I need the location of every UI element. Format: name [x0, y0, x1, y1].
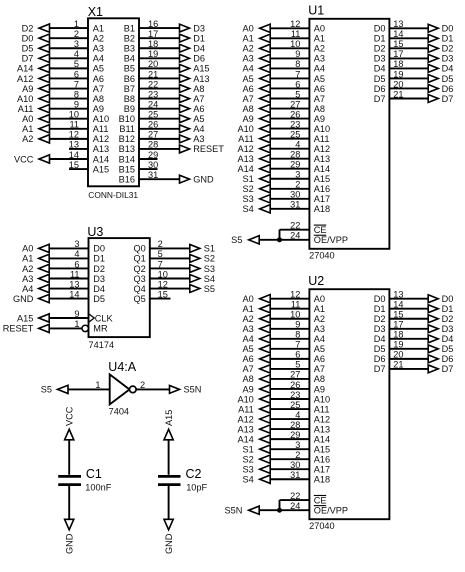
- svg-text:D7: D7: [374, 94, 386, 104]
- svg-text:23: 23: [148, 89, 158, 99]
- svg-text:A9: A9: [314, 384, 325, 394]
- svg-text:A2: A2: [93, 33, 104, 43]
- terminal A3 (U3 pin 11): [22, 274, 49, 284]
- svg-text:14: 14: [393, 300, 403, 310]
- wire U1 pin 20: [389, 87, 429, 89]
- svg-text:B4: B4: [124, 54, 135, 64]
- terminal S5 (U3 pin 12): [190, 284, 215, 294]
- terminal S1 (U3 pin 2): [190, 244, 215, 254]
- svg-text:A14: A14: [314, 434, 330, 444]
- svg-text:21: 21: [393, 89, 403, 99]
- wire U1 pin 24 (OE/VPP): [259, 239, 309, 241]
- inversion bubble (U3 MR): [82, 325, 88, 331]
- svg-text:A2: A2: [314, 314, 325, 324]
- svg-text:D3: D3: [193, 23, 205, 33]
- wire X1 pin 25: [139, 118, 180, 120]
- svg-text:A4: A4: [193, 124, 204, 134]
- svg-text:CE: CE: [314, 225, 327, 235]
- IC U2 27040 body: [309, 289, 389, 519]
- wire X1 pin 29: [139, 158, 158, 160]
- wire U2 pin 25: [270, 408, 309, 410]
- svg-text:A2: A2: [314, 44, 325, 54]
- wire X1 pin 21: [139, 77, 180, 79]
- svg-text:A0: A0: [22, 244, 33, 254]
- terminal D5 (U2 pin 19): [428, 344, 453, 354]
- svg-text:D1: D1: [442, 34, 454, 44]
- svg-text:A13: A13: [314, 154, 330, 164]
- wire U3 pin 5: [150, 257, 190, 259]
- svg-text:A12: A12: [237, 414, 253, 424]
- svg-text:U3: U3: [87, 225, 103, 239]
- svg-text:A5: A5: [314, 344, 325, 354]
- wire U1 pin 27: [270, 108, 309, 110]
- svg-text:12: 12: [290, 290, 300, 300]
- svg-text:17: 17: [148, 29, 158, 39]
- svg-text:8: 8: [295, 330, 300, 340]
- wire U2 pin 14: [389, 308, 429, 310]
- svg-text:GND: GND: [13, 294, 34, 304]
- wire U1 pin 26: [270, 118, 309, 120]
- wire U3 pin 13: [49, 288, 88, 290]
- svg-text:8: 8: [295, 59, 300, 69]
- svg-text:D4: D4: [193, 44, 205, 54]
- wire U2 pin 17: [389, 328, 429, 330]
- terminal D6 (U1 pin 20): [428, 84, 453, 94]
- svg-text:21: 21: [393, 360, 403, 370]
- svg-text:RESET: RESET: [3, 324, 34, 334]
- svg-text:A6: A6: [243, 354, 254, 364]
- terminal D7 (U2 pin 21): [428, 364, 453, 374]
- svg-text:D6: D6: [374, 84, 386, 94]
- svg-text:S1: S1: [243, 174, 254, 184]
- svg-text:D7: D7: [374, 364, 386, 374]
- svg-text:S4: S4: [243, 204, 254, 214]
- svg-text:D7: D7: [442, 364, 454, 374]
- svg-text:A1: A1: [22, 254, 33, 264]
- wire U1 pin 17: [389, 57, 429, 59]
- svg-text:A2: A2: [243, 314, 254, 324]
- wire C1 bottom plate to GND: [68, 486, 70, 519]
- svg-text:MR: MR: [93, 324, 108, 334]
- svg-text:2: 2: [74, 29, 79, 39]
- svg-text:S5N: S5N: [225, 506, 243, 516]
- wire X1 pin 28: [139, 148, 180, 150]
- svg-text:1: 1: [95, 380, 100, 390]
- junction dot node S5: [277, 237, 282, 242]
- svg-text:A8: A8: [93, 94, 104, 104]
- wire U3 pin 2: [150, 247, 190, 249]
- svg-text:A8: A8: [243, 104, 254, 114]
- svg-text:D7: D7: [22, 54, 34, 64]
- terminal A5 (U1 pin 7): [243, 74, 271, 84]
- svg-text:S2: S2: [243, 184, 254, 194]
- svg-text:A13: A13: [237, 424, 253, 434]
- terminal S2 (U3 pin 5): [190, 254, 215, 264]
- svg-text:CONN-DIL31: CONN-DIL31: [88, 190, 138, 200]
- svg-text:B16: B16: [119, 174, 135, 184]
- wire U2 pin 19: [389, 348, 429, 350]
- terminal A6 (U2 pin 6): [243, 354, 271, 364]
- svg-text:S3: S3: [243, 465, 254, 475]
- svg-text:A2: A2: [243, 44, 254, 54]
- terminal A3 (U1 pin 9): [243, 54, 271, 64]
- svg-text:A3: A3: [314, 54, 325, 64]
- svg-text:29: 29: [290, 160, 300, 170]
- svg-text:25: 25: [290, 129, 300, 139]
- svg-text:26: 26: [148, 120, 158, 130]
- terminal A0 (U3 pin 3): [22, 244, 49, 254]
- svg-text:27040: 27040: [309, 521, 335, 531]
- svg-text:A7: A7: [243, 94, 254, 104]
- svg-text:S4: S4: [243, 475, 254, 485]
- wire X1 pin 5: [50, 67, 89, 69]
- wire U1 pin 23: [270, 128, 309, 130]
- svg-text:5: 5: [74, 59, 79, 69]
- wire U2 pin 26: [270, 388, 309, 390]
- svg-text:A10: A10: [17, 94, 33, 104]
- svg-text:Q2: Q2: [134, 264, 146, 274]
- svg-text:18: 18: [393, 330, 403, 340]
- terminal D3 (U1 pin 17): [428, 54, 453, 64]
- svg-text:A7: A7: [243, 364, 254, 374]
- terminal A13 (X1 pin 21): [180, 74, 210, 84]
- svg-text:13: 13: [393, 290, 403, 300]
- svg-text:D3: D3: [93, 274, 105, 284]
- svg-text:9: 9: [295, 49, 300, 59]
- wire U2 pin 28: [270, 428, 309, 430]
- svg-text:U1: U1: [308, 3, 324, 17]
- svg-text:A9: A9: [22, 84, 33, 94]
- svg-text:22: 22: [290, 491, 300, 501]
- capacitor C2: [158, 476, 181, 484]
- svg-text:14: 14: [393, 29, 403, 39]
- svg-text:A15: A15: [164, 410, 174, 426]
- wire X1 pin 6: [50, 77, 89, 79]
- terminal A0 (X1 pin 10): [22, 114, 49, 124]
- power terminal A15 (above C2): [164, 410, 174, 440]
- terminal A9 (X1 pin 7): [22, 84, 49, 94]
- wire X1 pin 7: [50, 88, 89, 90]
- wire X1 pin 30: [139, 168, 158, 170]
- wire X1 pin 4: [50, 57, 89, 59]
- terminal A10 (U2 pin 23): [237, 394, 270, 404]
- wire X1 pin 8: [50, 98, 89, 100]
- terminal D2 (X1 pin 1): [22, 23, 50, 33]
- wire U2 pin 9: [270, 328, 309, 330]
- terminal D3 (X1 pin 16): [180, 23, 205, 33]
- svg-text:21: 21: [148, 69, 158, 79]
- terminal S1 (U2 pin 3): [243, 444, 271, 454]
- svg-text:B10: B10: [119, 114, 135, 124]
- svg-text:S3: S3: [243, 194, 254, 204]
- svg-text:A15: A15: [314, 174, 330, 184]
- svg-text:A9: A9: [243, 384, 254, 394]
- terminal VCC (X1 pin 14): [14, 154, 50, 164]
- svg-text:2: 2: [140, 380, 145, 390]
- IC U1 27040 body: [309, 19, 389, 249]
- terminal D3 (U2 pin 17): [428, 324, 453, 334]
- svg-text:13: 13: [393, 19, 403, 29]
- svg-text:A11: A11: [238, 404, 254, 414]
- svg-text:D5: D5: [374, 344, 386, 354]
- svg-text:A11: A11: [93, 124, 109, 134]
- svg-text:3: 3: [74, 239, 79, 249]
- svg-text:A2: A2: [22, 264, 33, 274]
- svg-text:A14: A14: [314, 164, 330, 174]
- svg-text:A13: A13: [193, 74, 209, 84]
- svg-text:17: 17: [393, 49, 403, 59]
- svg-text:18: 18: [148, 39, 158, 49]
- terminal A4 (X1 pin 26): [180, 124, 205, 134]
- ground terminal GND (below C1): [65, 519, 75, 554]
- svg-text:2: 2: [295, 450, 300, 460]
- wire X1 pin 10: [50, 118, 89, 120]
- svg-text:A8: A8: [314, 374, 325, 384]
- wire X1 pin 16: [139, 27, 180, 29]
- wire X1 pin 31: [139, 178, 180, 180]
- svg-text:24: 24: [290, 231, 300, 241]
- svg-text:S4: S4: [204, 274, 215, 284]
- svg-text:A6: A6: [314, 84, 325, 94]
- wire X1 pin 18: [139, 47, 180, 49]
- svg-text:B2: B2: [124, 33, 135, 43]
- svg-text:14: 14: [69, 289, 79, 299]
- wire C2 bottom plate to GND: [168, 486, 170, 519]
- terminal D1 (U2 pin 14): [428, 304, 453, 314]
- terminal A1 (U1 pin 11): [243, 34, 271, 44]
- svg-text:A3: A3: [314, 324, 325, 334]
- wire U1 pin 7: [270, 77, 309, 79]
- wire VCC to C1 top plate: [68, 440, 70, 475]
- wire X1 pin 17: [139, 37, 180, 39]
- terminal D2 (U2 pin 15): [428, 314, 453, 324]
- svg-text:1: 1: [74, 319, 79, 329]
- svg-text:28: 28: [290, 149, 300, 159]
- svg-text:D2: D2: [442, 44, 454, 54]
- svg-text:D7: D7: [442, 94, 454, 104]
- svg-text:11: 11: [291, 300, 301, 310]
- svg-text:B12: B12: [119, 134, 135, 144]
- svg-text:Q5: Q5: [134, 294, 146, 304]
- svg-text:A4: A4: [314, 64, 325, 74]
- svg-text:D0: D0: [442, 294, 454, 304]
- wire X1 pin 22: [139, 88, 180, 90]
- terminal S4 (U1 pin 31): [243, 204, 271, 214]
- svg-text:20: 20: [393, 350, 403, 360]
- svg-text:13: 13: [69, 279, 79, 289]
- svg-text:S5: S5: [204, 284, 215, 294]
- svg-text:A14: A14: [17, 64, 33, 74]
- svg-text:A1: A1: [314, 304, 325, 314]
- wire X1 pin 1: [50, 27, 89, 29]
- svg-text:11: 11: [69, 120, 79, 130]
- svg-text:D0: D0: [22, 33, 34, 43]
- terminal A5 (U2 pin 7): [243, 344, 271, 354]
- terminal D5 (U1 pin 19): [428, 74, 453, 84]
- svg-text:A4: A4: [314, 334, 325, 344]
- svg-text:D5: D5: [442, 74, 454, 84]
- svg-text:D4: D4: [374, 334, 386, 344]
- terminal A3 (X1 pin 27): [180, 134, 205, 144]
- svg-text:20: 20: [148, 59, 158, 69]
- svg-text:Q0: Q0: [134, 244, 146, 254]
- svg-text:12: 12: [69, 130, 79, 140]
- svg-text:C1: C1: [86, 467, 102, 481]
- inverter U4:A triangle: [110, 374, 130, 404]
- svg-text:D1: D1: [93, 254, 105, 264]
- terminal D0 (U1 pin 13): [428, 24, 453, 34]
- svg-text:19: 19: [393, 69, 403, 79]
- wire U3 pin 11: [49, 277, 88, 279]
- svg-text:A15: A15: [17, 313, 33, 323]
- terminal A5 (X1 pin 25): [180, 114, 205, 124]
- terminal A10 (X1 pin 8): [17, 94, 49, 104]
- terminal A12 (X1 pin 6): [17, 74, 49, 84]
- pin name OE/VPP with overbar (U1): [314, 235, 348, 245]
- svg-text:A2: A2: [22, 134, 33, 144]
- svg-text:3: 3: [295, 170, 300, 180]
- svg-text:A15: A15: [193, 64, 209, 74]
- svg-text:2: 2: [295, 180, 300, 190]
- svg-text:A9: A9: [93, 104, 104, 114]
- svg-text:A14: A14: [237, 164, 253, 174]
- svg-text:GND: GND: [193, 174, 214, 184]
- svg-text:A17: A17: [314, 465, 330, 475]
- wire U1 pin 9: [270, 57, 309, 59]
- svg-text:B14: B14: [119, 154, 135, 164]
- terminal A9 (U1 pin 26): [243, 114, 271, 124]
- svg-text:B1: B1: [124, 23, 135, 33]
- terminal A6 (X1 pin 24): [180, 104, 205, 114]
- wire U2 pin 5: [270, 368, 309, 370]
- svg-text:D5: D5: [22, 44, 34, 54]
- svg-text:25: 25: [290, 400, 300, 410]
- svg-text:GND: GND: [164, 533, 174, 554]
- terminal A4 (U1 pin 8): [243, 64, 271, 74]
- svg-text:A5: A5: [243, 344, 254, 354]
- svg-text:31: 31: [290, 200, 300, 210]
- svg-text:OE/VPP: OE/VPP: [314, 506, 348, 516]
- pin name OE/VPP with overbar (U2): [314, 506, 348, 516]
- wire U1 pin 5: [270, 98, 309, 100]
- svg-text:RESET: RESET: [193, 144, 224, 154]
- svg-text:B13: B13: [119, 144, 135, 154]
- svg-text:A12: A12: [237, 144, 253, 154]
- svg-text:A11: A11: [238, 134, 254, 144]
- terminal A2 (U3 pin 6): [22, 264, 49, 274]
- svg-text:13: 13: [69, 140, 79, 150]
- connector X1 body: [88, 18, 139, 186]
- svg-text:A13: A13: [314, 424, 330, 434]
- svg-text:A16: A16: [314, 454, 330, 464]
- svg-text:10: 10: [290, 39, 300, 49]
- svg-text:5: 5: [158, 249, 163, 259]
- svg-text:15: 15: [69, 160, 79, 170]
- svg-text:A0: A0: [314, 24, 325, 34]
- terminal GND (U3 pin 14): [13, 294, 49, 304]
- terminal A13 (U2 pin 28): [237, 424, 270, 434]
- svg-text:A15: A15: [314, 444, 330, 454]
- svg-text:4: 4: [295, 139, 300, 149]
- wire U3 pin 1 (MR): [49, 327, 82, 329]
- svg-text:6: 6: [295, 79, 300, 89]
- terminal S4 (U3 pin 10): [190, 274, 215, 284]
- svg-text:D4: D4: [374, 64, 386, 74]
- terminal A8 (U1 pin 27): [243, 104, 271, 114]
- terminal A8 (U2 pin 27): [243, 374, 271, 384]
- svg-text:A14: A14: [237, 434, 253, 444]
- svg-text:100nF: 100nF: [85, 482, 111, 492]
- wire X1 pin 12: [50, 138, 89, 140]
- terminal D0 (X1 pin 2): [22, 33, 50, 43]
- svg-text:A5: A5: [314, 74, 325, 84]
- terminal D4 (X1 pin 18): [180, 44, 205, 54]
- svg-text:S1: S1: [204, 244, 215, 254]
- terminal A2 (U1 pin 10): [243, 44, 271, 54]
- wire X1 pin 11: [50, 128, 89, 130]
- wire U2 pin 6: [270, 358, 309, 360]
- wire U2 pin 22 (CE): [280, 499, 310, 501]
- svg-text:10: 10: [158, 269, 168, 279]
- svg-text:U2: U2: [308, 274, 324, 288]
- svg-text:A13: A13: [237, 154, 253, 164]
- svg-text:D6: D6: [374, 354, 386, 364]
- svg-text:30: 30: [290, 190, 300, 200]
- wire U2 pin 21: [389, 368, 429, 370]
- svg-text:18: 18: [393, 59, 403, 69]
- terminal D2 (U1 pin 15): [428, 44, 453, 54]
- terminal A0 (U1 pin 12): [243, 24, 271, 34]
- svg-text:D4: D4: [442, 64, 454, 74]
- svg-text:D2: D2: [22, 23, 34, 33]
- wire X1 pin 2: [50, 37, 89, 39]
- terminal RESET (X1 pin 28): [180, 144, 225, 154]
- svg-text:3: 3: [74, 39, 79, 49]
- svg-text:A3: A3: [243, 54, 254, 64]
- svg-text:23: 23: [290, 119, 300, 129]
- svg-text:Q3: Q3: [134, 274, 146, 284]
- svg-text:24: 24: [148, 99, 158, 109]
- svg-text:27: 27: [290, 370, 300, 380]
- svg-text:VCC: VCC: [65, 406, 75, 426]
- svg-text:B6: B6: [124, 74, 135, 84]
- svg-text:A5: A5: [93, 64, 104, 74]
- svg-text:S5: S5: [231, 235, 242, 245]
- wire U3 pin 6: [49, 267, 88, 269]
- svg-text:A12: A12: [93, 134, 109, 144]
- svg-text:28: 28: [148, 140, 158, 150]
- svg-text:A1: A1: [93, 23, 104, 33]
- wire U2 pin 27: [270, 378, 309, 380]
- wire U1 pin 2: [270, 188, 309, 190]
- wire U2 pin 29: [270, 438, 309, 440]
- svg-text:28: 28: [290, 420, 300, 430]
- power terminal VCC (above C1): [65, 406, 75, 440]
- svg-text:D0: D0: [93, 244, 105, 254]
- svg-text:A4: A4: [243, 64, 254, 74]
- terminal A15 (X1 pin 20): [180, 64, 210, 74]
- svg-text:9: 9: [74, 309, 79, 319]
- svg-text:25: 25: [148, 110, 158, 120]
- svg-text:10: 10: [290, 310, 300, 320]
- svg-text:11: 11: [291, 29, 301, 39]
- svg-text:D6: D6: [442, 354, 454, 364]
- svg-text:D0: D0: [442, 24, 454, 34]
- svg-text:26: 26: [290, 109, 300, 119]
- svg-text:29: 29: [148, 150, 158, 160]
- svg-text:D2: D2: [93, 264, 105, 274]
- svg-text:A12: A12: [314, 144, 330, 154]
